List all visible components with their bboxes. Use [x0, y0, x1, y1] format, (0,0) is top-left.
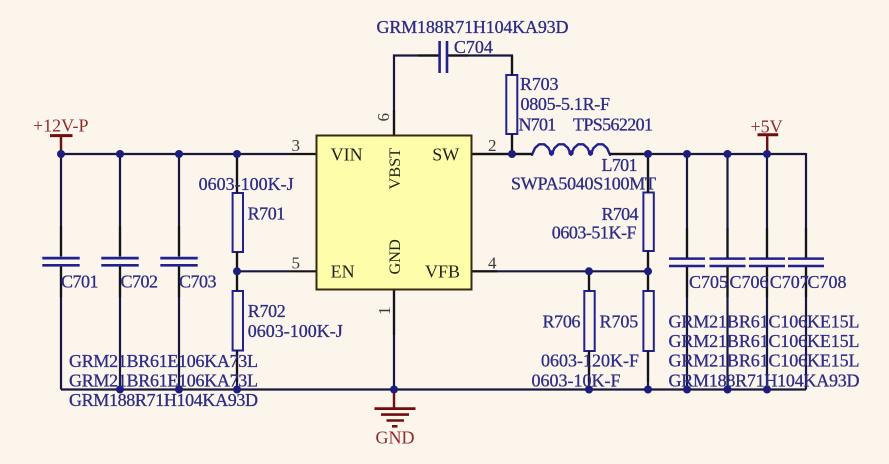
- svg-text:0603-51K-F: 0603-51K-F: [552, 223, 637, 243]
- svg-text:1: 1: [375, 307, 394, 316]
- svg-text:GRM188R71H104KA93D: GRM188R71H104KA93D: [69, 390, 258, 410]
- svg-text:0603-100K-J: 0603-100K-J: [199, 174, 294, 194]
- svg-text:C703: C703: [179, 272, 217, 292]
- svg-text:C708: C708: [808, 272, 847, 292]
- svg-text:R702: R702: [248, 301, 286, 321]
- svg-text:TPS562201: TPS562201: [573, 115, 653, 135]
- svg-text:SWPA5040S100MT: SWPA5040S100MT: [511, 173, 656, 193]
- svg-text:6: 6: [374, 113, 393, 122]
- svg-text:3: 3: [292, 136, 301, 155]
- svg-text:0805-5.1R-F: 0805-5.1R-F: [521, 94, 611, 114]
- svg-text:0603-100K-J: 0603-100K-J: [248, 321, 343, 341]
- svg-text:GRM21BR61C106KE15L: GRM21BR61C106KE15L: [669, 350, 860, 370]
- svg-text:R705: R705: [600, 312, 639, 332]
- svg-text:C707: C707: [770, 272, 809, 292]
- svg-text:GRM21BR61C106KE15L: GRM21BR61C106KE15L: [669, 331, 860, 351]
- svg-text:C701: C701: [61, 272, 99, 292]
- svg-text:R706: R706: [543, 312, 581, 332]
- svg-text:C702: C702: [121, 272, 159, 292]
- svg-text:GRM21BR61E106KA73L: GRM21BR61E106KA73L: [69, 351, 258, 371]
- svg-text:GRM21BR61C106KE15L: GRM21BR61C106KE15L: [669, 312, 860, 332]
- svg-text:4: 4: [488, 253, 497, 272]
- svg-text:2: 2: [488, 136, 497, 155]
- svg-text:C704: C704: [454, 37, 493, 57]
- svg-text:GRM188R71H104KA93D: GRM188R71H104KA93D: [669, 370, 860, 390]
- svg-text:R701: R701: [248, 204, 286, 224]
- svg-text:L701: L701: [602, 155, 638, 175]
- svg-text:VFB: VFB: [425, 262, 460, 282]
- svg-text:GRM188R71H104KA93D: GRM188R71H104KA93D: [377, 17, 569, 37]
- svg-text:VBST: VBST: [385, 148, 404, 190]
- svg-text:0603-10K-F: 0603-10K-F: [532, 370, 621, 390]
- svg-text:GRM21BR61E106KA73L: GRM21BR61E106KA73L: [69, 370, 258, 390]
- svg-text:SW: SW: [432, 145, 459, 165]
- svg-text:N701: N701: [519, 115, 557, 135]
- svg-text:VIN: VIN: [331, 145, 363, 165]
- svg-text:GND: GND: [385, 239, 404, 275]
- svg-text:R703: R703: [520, 74, 559, 94]
- svg-text:C706: C706: [730, 272, 769, 292]
- svg-text:R704: R704: [602, 204, 639, 224]
- svg-text:+5V: +5V: [751, 116, 783, 136]
- svg-text:+12V-P: +12V-P: [33, 116, 89, 136]
- svg-text:EN: EN: [331, 262, 355, 282]
- svg-text:5: 5: [292, 253, 301, 272]
- svg-text:GND: GND: [376, 428, 415, 448]
- svg-text:0603-120K-F: 0603-120K-F: [541, 350, 639, 370]
- svg-text:C705: C705: [689, 272, 728, 292]
